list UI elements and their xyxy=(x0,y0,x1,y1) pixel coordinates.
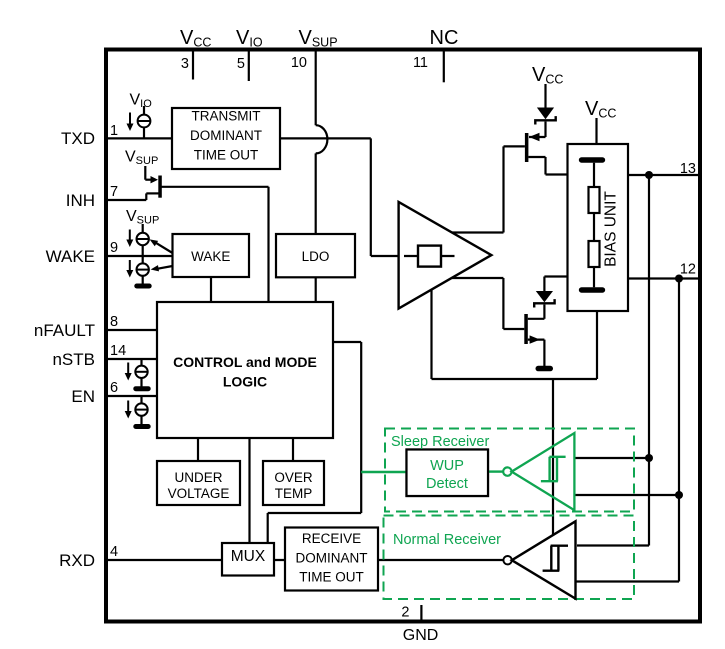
svg-text:GND: GND xyxy=(403,627,439,644)
svg-text:Normal Receiver: Normal Receiver xyxy=(393,532,501,548)
svg-text:RXD: RXD xyxy=(59,551,95,570)
svg-text:WUP: WUP xyxy=(430,458,464,474)
svg-text:VOLTAGE: VOLTAGE xyxy=(168,486,230,501)
svg-text:13: 13 xyxy=(680,161,696,177)
svg-text:9: 9 xyxy=(110,240,118,256)
svg-text:NC: NC xyxy=(430,27,459,49)
svg-text:TIME OUT: TIME OUT xyxy=(194,148,259,163)
svg-text:10: 10 xyxy=(291,55,307,71)
svg-text:BIAS UNIT: BIAS UNIT xyxy=(603,191,620,267)
svg-text:12: 12 xyxy=(680,262,696,278)
svg-text:8: 8 xyxy=(110,314,118,330)
svg-text:INH: INH xyxy=(66,191,95,210)
svg-text:LDO: LDO xyxy=(302,249,330,264)
svg-text:2: 2 xyxy=(401,605,409,621)
svg-text:TRANSMIT: TRANSMIT xyxy=(192,109,261,124)
svg-text:Detect: Detect xyxy=(426,476,468,492)
svg-text:DOMINANT: DOMINANT xyxy=(296,551,368,566)
svg-text:11: 11 xyxy=(413,55,428,71)
svg-text:4: 4 xyxy=(110,544,118,560)
svg-text:OVER: OVER xyxy=(274,470,313,485)
svg-text:UNDER: UNDER xyxy=(174,470,222,485)
svg-text:5: 5 xyxy=(237,56,245,72)
svg-text:RECEIVE: RECEIVE xyxy=(302,531,361,546)
svg-text:TEMP: TEMP xyxy=(275,486,313,501)
svg-text:WAKE: WAKE xyxy=(46,247,95,266)
svg-text:14: 14 xyxy=(110,343,126,359)
svg-text:TXD: TXD xyxy=(61,129,95,148)
svg-text:6: 6 xyxy=(110,380,118,396)
svg-text:EN: EN xyxy=(71,387,95,406)
svg-text:LOGIC: LOGIC xyxy=(223,374,267,390)
svg-text:3: 3 xyxy=(181,56,189,72)
svg-text:MUX: MUX xyxy=(231,548,266,565)
svg-text:Sleep Receiver: Sleep Receiver xyxy=(391,434,489,450)
svg-text:1: 1 xyxy=(110,123,118,139)
svg-text:CONTROL and MODE: CONTROL and MODE xyxy=(173,354,317,370)
svg-text:7: 7 xyxy=(110,184,118,200)
svg-text:nSTB: nSTB xyxy=(52,350,95,369)
svg-text:WAKE: WAKE xyxy=(191,249,230,264)
svg-text:TIME OUT: TIME OUT xyxy=(299,570,364,585)
svg-text:DOMINANT: DOMINANT xyxy=(190,128,262,143)
svg-text:nFAULT: nFAULT xyxy=(34,321,95,340)
